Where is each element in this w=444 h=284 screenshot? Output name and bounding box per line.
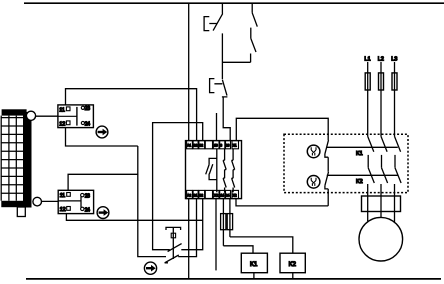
relay top terminal (blank) <box>205 141 212 149</box>
wire: relay bottom stub <box>215 199 217 271</box>
K2 main contact pole 2 <box>382 168 388 183</box>
relay top terminal 23 <box>220 141 225 149</box>
fuse F3 on output 14 <box>221 199 226 246</box>
relay top terminal S52 <box>199 141 205 149</box>
relay top terminal 33 <box>226 141 231 149</box>
wire: feedback loop to relay X2 <box>236 199 328 206</box>
svg-text:23: 23 <box>85 106 90 112</box>
fuse on L2 <box>379 73 384 90</box>
K1 main contact pole 3 <box>395 136 401 151</box>
signal direction symbol 3 <box>144 262 156 274</box>
svg-text:S1: S1 <box>193 193 197 197</box>
signal direction symbol 1 <box>96 126 108 138</box>
svg-text:S2: S2 <box>193 144 197 148</box>
svg-text:S2: S2 <box>199 144 203 148</box>
wire: bottom node to OSSD block 2 <box>42 200 59 202</box>
L2 lower segment to motor <box>380 184 382 217</box>
OSSD block 2 (output contacts 11/12, O23/O24) <box>58 190 93 213</box>
svg-text:A2: A2 <box>187 193 191 197</box>
K1 main contact pole 1 <box>368 136 374 151</box>
signal direction symbol 2 <box>97 207 109 219</box>
relay bottom terminal 14 <box>220 190 225 198</box>
switch S2 contact <box>222 80 228 97</box>
node: light curtain bottom output <box>33 197 42 206</box>
K1 linkage bar <box>327 146 398 148</box>
wire: feedback loop from relay X1 <box>236 118 328 140</box>
svg-text:X2: X2 <box>233 193 237 197</box>
motor <box>359 217 403 261</box>
K2 mirror contact (feedback) <box>325 172 329 206</box>
wire: supply to relay A1 <box>188 3 190 140</box>
svg-text:12: 12 <box>60 207 66 213</box>
svg-text:A1: A1 <box>187 144 191 148</box>
K2 main contact pole 1 <box>368 168 374 183</box>
relay module outer box <box>186 141 242 199</box>
wire: relay A2 to return <box>188 199 190 279</box>
relay bottom terminal (blank) <box>205 190 212 198</box>
wire: block2 pin 12 to relay terminal S22 <box>66 214 202 221</box>
svg-text:X2: X2 <box>214 193 218 197</box>
svg-text:L3: L3 <box>391 57 397 63</box>
motor terminal box <box>362 196 401 212</box>
L2 mid segment <box>381 155 383 168</box>
svg-text:11: 11 <box>60 193 65 199</box>
relay top terminal A1 <box>187 141 193 149</box>
svg-text:K2: K2 <box>356 179 363 185</box>
contactor coil K2 <box>280 253 305 273</box>
svg-text:S2: S2 <box>199 193 203 197</box>
relay internal channel contact <box>206 149 217 192</box>
K1 mirror contact (feedback) <box>325 140 329 172</box>
relay internal output contact 13-14 <box>223 149 226 192</box>
contactor assembly dashed enclosure <box>284 134 408 192</box>
fuse on L3 <box>392 73 397 90</box>
light curtain ESPE body <box>1 109 32 207</box>
wire: link junction down to start contact (lower) <box>138 174 166 256</box>
K1 main contact pole 2 <box>381 136 387 151</box>
svg-text:11: 11 <box>59 107 64 113</box>
wire: K2 coil to return <box>292 273 294 279</box>
OSSD block 1 (output contacts 11/12, O23/O24) <box>58 105 94 128</box>
svg-text:L2: L2 <box>378 57 384 63</box>
svg-text:K1: K1 <box>356 151 363 157</box>
relay top terminal S12 <box>193 141 198 149</box>
relay top terminal 13 <box>213 141 219 149</box>
L3 lower segment to motor <box>394 184 396 222</box>
top bus wire <box>24 2 444 4</box>
relay bottom terminal A2 <box>187 190 193 198</box>
fuse F4 on output 24 <box>227 199 232 237</box>
svg-text:23: 23 <box>85 194 90 200</box>
wire: relay 13 stub <box>216 113 218 141</box>
switch S1 manual actuator (bracket) <box>204 17 217 31</box>
switch S1 contact <box>213 3 223 79</box>
bottom return wire <box>26 278 441 280</box>
svg-text:12: 12 <box>59 121 65 127</box>
wire: relay S22 terminal down to reset contact (upper) right side <box>181 199 202 250</box>
wire: block1 pin 12 down to link junction <box>66 128 138 146</box>
relay internal output contact 23-24 <box>232 149 235 192</box>
svg-text:3: 3 <box>220 144 222 148</box>
K2 main contact pole 3 <box>395 168 401 183</box>
wire: K1 coil to return <box>253 273 255 279</box>
node: light curtain top output <box>26 111 35 120</box>
svg-text:K1: K1 <box>250 262 258 268</box>
contactor coil K1 <box>241 253 267 273</box>
K2 drive symbol <box>307 176 320 189</box>
light curtain bottom tab <box>17 207 25 217</box>
svg-text:24: 24 <box>226 193 230 197</box>
switch S2 manual actuator (bracket) <box>210 79 223 93</box>
phase L3 wire <box>394 62 396 136</box>
wire: output 24 to contactor K2 <box>230 237 293 253</box>
K2 linkage bar <box>327 174 398 176</box>
reset/start button actuator (T plunger) <box>166 227 181 259</box>
fuse on L1 <box>365 73 370 90</box>
wire: top node to OSSD block 1 <box>36 115 58 117</box>
relay bottom terminal S22 <box>199 190 205 198</box>
wire: S2 to relay top terminal <box>223 98 230 141</box>
L1 lower segment to motor <box>367 184 369 221</box>
L3 mid segment <box>394 155 396 168</box>
relay bottom terminal S21 <box>193 190 198 198</box>
svg-text:24: 24 <box>85 121 90 127</box>
wire: aux chain bottom to S1 branch junction <box>222 61 250 63</box>
wire: link junction to block2 pin 11 <box>68 146 138 190</box>
K1 drive symbol <box>307 145 320 158</box>
L1 mid segment <box>367 155 369 168</box>
svg-text:K2: K2 <box>289 262 297 268</box>
relay bottom terminal 24 <box>226 190 231 198</box>
svg-text:23: 23 <box>226 144 230 148</box>
wire: relay S34 terminal loop to reset contact (upper) left side <box>153 123 203 250</box>
phase L2 wire <box>380 62 382 136</box>
wire: block1 pin 11 up and to relay terminal S12 <box>66 89 197 141</box>
relay bottom terminal 34 <box>213 190 219 198</box>
svg-text:24: 24 <box>85 207 90 213</box>
wire: output 14 to contactor K1 <box>223 246 253 253</box>
svg-text:13: 13 <box>214 144 218 148</box>
phase L1 wire <box>367 62 369 136</box>
svg-text:14: 14 <box>220 193 224 197</box>
svg-text:X1: X1 <box>233 144 237 148</box>
start/reset contact blade (lower, NO) <box>165 255 179 263</box>
wire: start contact (lower) right side up to relay S21 <box>178 199 196 257</box>
start/reset contact blade (upper, NO) <box>168 244 182 252</box>
K1/K2 feedback aux contact chain <box>251 3 258 62</box>
relay bottom terminal X2 <box>232 190 239 198</box>
relay top terminal X1 <box>232 141 239 149</box>
svg-text:L1: L1 <box>364 57 370 63</box>
